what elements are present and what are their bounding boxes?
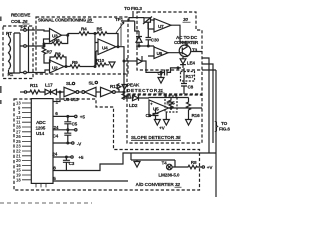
svg-text:LE4: LE4 xyxy=(187,61,196,66)
svg-text:C30: C30 xyxy=(151,38,160,43)
svg-text:ADC: ADC xyxy=(36,120,46,125)
svg-text:R1: R1 xyxy=(8,72,14,77)
svg-text:24: 24 xyxy=(54,125,59,130)
capacitor C6 xyxy=(153,109,159,120)
shield xyxy=(14,33,20,73)
diode D3 xyxy=(135,56,164,72)
grounds +V xyxy=(154,113,169,126)
node terminal xyxy=(20,91,24,93)
transistor T3 xyxy=(179,45,191,57)
T4 LM236 xyxy=(131,153,175,167)
resistor R16 xyxy=(187,99,191,117)
svg-text:R7: R7 xyxy=(47,50,53,55)
wires to fig6 xyxy=(180,42,216,197)
svg-text:35: 35 xyxy=(176,135,181,140)
svg-text:32: 32 xyxy=(175,182,180,187)
A/D converter box 34 xyxy=(14,99,200,190)
svg-text:FIG.3: FIG.3 xyxy=(131,6,142,11)
svg-text:U14: U14 xyxy=(36,131,45,136)
coil L1 xyxy=(9,36,11,70)
wire xyxy=(9,33,15,73)
svg-text:31: 31 xyxy=(158,88,163,93)
svg-text:SL: SL xyxy=(66,81,72,86)
svg-text:C4: C4 xyxy=(53,133,59,138)
svg-text:1205: 1205 xyxy=(36,126,46,131)
AC to DC converter box 30 xyxy=(137,12,202,70)
svg-text:L17: L17 xyxy=(45,83,53,88)
svg-text:R11: R11 xyxy=(30,83,38,88)
svg-text:C6: C6 xyxy=(146,113,152,118)
svg-text:FIG.6: FIG.6 xyxy=(219,127,230,132)
svg-text:COIL 26: COIL 26 xyxy=(11,19,28,24)
ground xyxy=(109,62,115,68)
resistor R4 xyxy=(79,32,95,36)
ground xyxy=(134,160,140,167)
left pins xyxy=(16,101,21,183)
node xyxy=(94,34,96,67)
svg-text:R4: R4 xyxy=(81,27,87,32)
svg-text:R16: R16 xyxy=(192,113,201,118)
diodes L17 xyxy=(43,89,64,94)
wire U4 out xyxy=(116,34,124,92)
wire coil to U3 xyxy=(26,30,49,73)
svg-text:30: 30 xyxy=(183,17,188,22)
capacitor C4 xyxy=(64,130,71,143)
svg-text:SIGNAL CONDITIONING: SIGNAL CONDITIONING xyxy=(38,18,87,23)
svg-text:SLOPE DETECTOR: SLOPE DETECTOR xyxy=(131,135,175,140)
resistor R8b xyxy=(172,165,202,169)
capacitor C30 xyxy=(146,22,152,46)
diode LD2 xyxy=(133,95,150,100)
op-amp U2 xyxy=(50,60,65,73)
pin 7 -V xyxy=(53,142,72,144)
svg-text:RT: RT xyxy=(6,31,12,36)
wire U7 out xyxy=(148,22,180,42)
gate U9 xyxy=(85,87,96,96)
svg-text:U2: U2 xyxy=(52,66,58,71)
arrow up xyxy=(122,85,127,90)
svg-text:T4: T4 xyxy=(162,161,168,166)
ground xyxy=(158,72,164,83)
op-amp U3 xyxy=(50,29,62,43)
svg-text:TO: TO xyxy=(221,121,228,126)
svg-text:LM236-5.0: LM236-5.0 xyxy=(158,173,179,178)
op-amp U6 xyxy=(154,47,168,59)
svg-text:U6: U6 xyxy=(157,51,163,56)
peak wire xyxy=(124,60,135,62)
svg-text:R6: R6 xyxy=(54,38,60,43)
svg-text:R8: R8 xyxy=(191,160,197,165)
svg-text:28: 28 xyxy=(86,18,92,23)
svg-text:U7: U7 xyxy=(158,24,164,29)
op-amp U5 xyxy=(149,100,169,117)
gate U8 xyxy=(64,87,76,96)
resistor R13 xyxy=(117,83,121,92)
svg-text:R10: R10 xyxy=(96,58,105,63)
node P1 xyxy=(20,27,29,73)
wire U5 out xyxy=(169,107,203,109)
svg-text:R9: R9 xyxy=(72,60,78,65)
resistor R11 xyxy=(27,90,44,94)
svg-text:P1: P1 xyxy=(21,25,27,30)
svg-text:U4: U4 xyxy=(102,46,108,51)
slope detector box 33 xyxy=(127,95,202,143)
diode D1 xyxy=(128,21,142,46)
svg-text:DETECTOR: DETECTOR xyxy=(127,88,158,93)
op-amp U4 xyxy=(98,39,116,55)
bottom artifact dashes xyxy=(0,202,92,204)
svg-text:}: } xyxy=(215,119,219,133)
peak detector box 31 xyxy=(127,58,202,94)
svg-text:R13: R13 xyxy=(110,84,119,89)
top rail trimpot xyxy=(133,17,144,19)
capacitor C3 xyxy=(63,157,70,171)
resistor R9 xyxy=(64,65,95,69)
rail to U6 xyxy=(136,46,154,56)
resistor R14 xyxy=(122,92,126,100)
ADC chip U14 xyxy=(31,99,53,184)
svg-text:PEAK: PEAK xyxy=(127,83,140,88)
svg-text:TO: TO xyxy=(124,6,131,11)
svg-text:C8: C8 xyxy=(188,85,194,90)
svg-text:R15: R15 xyxy=(167,101,176,106)
resistor R8 xyxy=(50,55,66,66)
slope wire in xyxy=(124,92,131,98)
capacitor C5 xyxy=(64,116,71,129)
op-amp U7 xyxy=(154,19,171,33)
gate U10 xyxy=(101,87,113,96)
svg-text:+5: +5 xyxy=(80,114,86,119)
diode LE4 xyxy=(180,57,186,68)
svg-text:24: 24 xyxy=(52,152,57,157)
svg-text:LD2: LD2 xyxy=(129,103,138,108)
resistor R6 xyxy=(44,36,68,46)
capacitor C7 xyxy=(165,68,182,76)
resistor R17 dashed xyxy=(181,72,195,82)
wire U3 out xyxy=(62,34,80,36)
svg-text:SL: SL xyxy=(89,81,95,86)
resistor R7 xyxy=(42,44,49,63)
svg-text:RECEIVE: RECEIVE xyxy=(11,13,30,18)
resistor R10 xyxy=(96,51,109,67)
capacitor C8 xyxy=(181,81,187,94)
svg-text:C3: C3 xyxy=(69,161,75,166)
svg-text:R8: R8 xyxy=(55,52,61,57)
svg-text:+5: +5 xyxy=(78,155,84,160)
signal conditioning box 28 xyxy=(36,17,128,74)
svg-text:18: 18 xyxy=(16,177,21,182)
svg-text:C5: C5 xyxy=(72,121,78,126)
svg-text:R5: R5 xyxy=(97,27,103,32)
scan artifacts xyxy=(0,17,2,105)
svg-text:R17: R17 xyxy=(186,74,195,79)
resistor R5 xyxy=(95,32,118,47)
receive coil box 26 xyxy=(3,26,33,79)
bottom ticks xyxy=(36,183,46,187)
feedback rail xyxy=(149,98,189,100)
resistor R15 dashed xyxy=(165,96,177,112)
svg-text:A/D CONVERTER: A/D CONVERTER xyxy=(136,182,175,187)
